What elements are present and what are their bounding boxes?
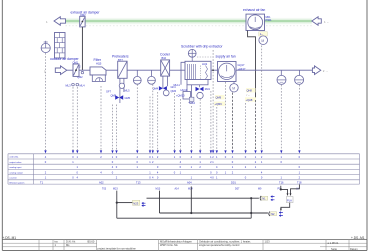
supply duct line: [67, 69, 313, 71]
svg-text:+QH8: +QH8: [246, 98, 253, 102]
scrubber HU2: [185, 61, 211, 79]
svg-text:GF7: GF7: [106, 90, 112, 94]
louvre wall (brick): [55, 33, 66, 59]
svg-text:PLA: PLA: [287, 199, 292, 203]
frame right border: [366, 0, 368, 250]
faint parallel dashed line: [66, 25, 312, 27]
svg-text:analog input: analog input: [10, 166, 22, 169]
svg-text:D.Kl.-Nr.: D.Kl.-Nr.: [66, 239, 76, 243]
wire M23: [116, 191, 118, 219]
svg-text:a 1.08 A1: a 1.08 A1: [328, 241, 340, 245]
wire M13: [159, 191, 161, 213]
svg-text:M: M: [232, 86, 235, 90]
frame left border: [1, 0, 3, 250]
svg-text:1 ←: 1 ←: [324, 20, 330, 24]
title block text: [55, 239, 358, 251]
svg-text:D01: D01: [231, 180, 236, 184]
wire L8 to PLA: [291, 185, 300, 195]
svg-text:+.DS.-M1: +.DS.-M1: [351, 236, 365, 240]
svg-text:supply air fan: supply air fan: [216, 54, 236, 58]
svg-text:N1: N1: [262, 196, 266, 200]
supply outlet arrow: [312, 66, 320, 75]
svg-text:MT-text system: MT-text system: [10, 182, 25, 185]
svg-text:M: M: [261, 39, 264, 43]
below-table wire labels: [102, 187, 299, 190]
controller N1: [260, 196, 261, 201]
damper control wire: [81, 27, 83, 70]
exhaust air duct (green): [66, 18, 312, 25]
exhaust outlet arrow: [54, 17, 66, 26]
svg-text:ML3: ML3: [66, 83, 72, 87]
scrubber water feed pipe: [181, 62, 185, 85]
svg-text:T18: T18: [297, 180, 302, 184]
svg-text:P601: P601: [266, 18, 273, 22]
svg-text:+HK17: +HK17: [238, 67, 247, 71]
svg-text:r ~: r ~: [247, 93, 251, 97]
svg-text:ML5: ML5: [125, 89, 131, 93]
svg-text:T13: T13: [136, 180, 141, 184]
return air inlet arrow: [312, 17, 322, 26]
preheater valve: [115, 95, 123, 99]
svg-text:analog output: analog output: [10, 171, 24, 174]
svg-text:D07: D07: [235, 187, 240, 190]
exhaust fan control wire: [248, 31, 256, 101]
exhaust air fan: [246, 14, 265, 30]
supply fan motor: [230, 84, 238, 92]
svg-text:+.DS.-M1: +.DS.-M1: [3, 236, 17, 240]
svg-text:exhaust air fan: exhaust air fan: [243, 8, 265, 12]
svg-text:A14: A14: [175, 187, 180, 190]
svg-text:order-No.: order-No.: [10, 156, 20, 159]
cooler pump: [163, 90, 169, 96]
svg-text:M01: M01: [266, 15, 272, 19]
svg-text:Scrubber with drip extractor: Scrubber with drip extractor: [181, 45, 223, 49]
svg-text:M14: M14: [188, 187, 193, 190]
scrubber sensor: [188, 49, 196, 57]
motor signal lines (darker): [233, 93, 256, 151]
svg-text:outdoor air damper: outdoor air damper: [50, 57, 80, 61]
preheater pump: [119, 83, 124, 88]
svg-text:Filter: Filter: [94, 58, 102, 62]
wire riser: [250, 198, 252, 218]
svg-text:A02: A02: [99, 180, 104, 184]
I/O table: [8, 154, 360, 184]
wire P1 to PLA: [281, 186, 288, 195]
scrubber pump: [197, 92, 203, 98]
svg-text:ML11: ML11: [174, 83, 181, 87]
svg-text:GM5: GM5: [125, 96, 131, 100]
svg-text:GQ17: GQ17: [238, 63, 245, 67]
svg-text:N23: N23: [133, 201, 139, 205]
node ML4: [76, 83, 79, 86]
svg-text:M13: M13: [156, 187, 161, 190]
svg-text:QM4: QM4: [171, 89, 177, 93]
supply air fan: [218, 62, 237, 82]
wire M23 bottom run: [117, 217, 251, 219]
svg-text:Cooler: Cooler: [160, 52, 171, 56]
cooler pipes: [162, 76, 164, 88]
svg-text:+QM10: +QM10: [176, 94, 185, 98]
I/O table row headers: [10, 156, 25, 185]
title block bottom line: [2, 249, 367, 251]
outdoor air sensor: [41, 43, 50, 52]
duct sensor 1: [136, 70, 138, 76]
svg-text:+QM9: +QM9: [215, 102, 223, 106]
filter sensor box: [92, 75, 105, 82]
controller N2: [269, 212, 270, 217]
filter HQ5: [90, 67, 106, 75]
supply fan labels: [215, 95, 225, 99]
svg-text:N2: N2: [271, 212, 275, 216]
signal line arrowheads: [44, 150, 300, 153]
svg-text:HU2: HU2: [202, 62, 208, 66]
svg-text:MSuR/Infrastruktur Anlagen: MSuR/Infrastruktur Anlagen: [160, 239, 192, 243]
svg-text:QM4: QM4: [153, 87, 159, 91]
scrubber sump: [187, 80, 208, 85]
exhaust air damper QM2: [80, 16, 85, 27]
I/O table entries: [45, 155, 301, 180]
title block dividers: [39, 240, 349, 251]
title block top line: [2, 239, 367, 241]
scrubber feed tank: [186, 85, 188, 92]
duct sensor 2: [151, 70, 153, 76]
svg-text:counter: counter: [10, 177, 18, 180]
controller N23: [133, 200, 140, 205]
scrubber valve: [196, 87, 204, 91]
svg-text:WSP N-Oe. Ms: WSP N-Oe. Ms: [160, 243, 178, 247]
svg-text:Datum: Datum: [350, 247, 358, 251]
svg-text:T16: T16: [279, 180, 284, 184]
svg-text:A04: A04: [187, 180, 192, 184]
svg-text:B5.60: B5.60: [88, 239, 95, 243]
wire M14: [190, 187, 192, 214]
svg-text:HQ5: HQ5: [96, 62, 102, 66]
svg-text:single temperature/humidity co: single temperature/humidity control: [199, 243, 240, 247]
outdoor air intake arrow: [55, 66, 67, 75]
svg-text:QH8: QH8: [247, 89, 253, 93]
cooler B10: [161, 60, 170, 76]
svg-text:M23: M23: [113, 187, 118, 190]
signal lines to I/O table: [46, 46, 300, 151]
supply duct sensor 2: [298, 70, 300, 75]
bus upper: [147, 197, 259, 199]
cooler valve: [159, 86, 167, 90]
svg-text:ML4: ML4: [80, 83, 86, 87]
scrubber pump wire M14: [190, 85, 192, 100]
supply duct sensor 1: [280, 70, 282, 75]
preheater BT7: [118, 61, 127, 78]
title block middle lines: [2, 242, 97, 244]
svg-text:1/23: 1/23: [265, 239, 271, 243]
bus lower: [160, 212, 268, 214]
svg-text:2 →: 2 →: [323, 69, 329, 73]
svg-text:Seite: Seite: [331, 247, 337, 251]
svg-text:T03: T03: [102, 187, 107, 190]
PLA out wire: [281, 203, 290, 210]
node at duct for scrubber sensor line: [212, 69, 214, 71]
exhaust fan motor: [259, 32, 268, 36]
PLA box: [286, 197, 293, 203]
svg-text:Gebäude air conditioning, scru: Gebäude air conditioning, scrubber, 1 he…: [199, 239, 251, 243]
svg-text:B10: B10: [162, 56, 167, 60]
svg-text:output value: output value: [10, 161, 23, 164]
svg-text:ML9: ML9: [205, 87, 211, 91]
svg-text:project template for non-stock: project template for non-stockline: [98, 247, 137, 251]
outdoor air damper QM1: [73, 64, 79, 76]
svg-text:QM9: QM9: [216, 96, 222, 100]
preheater pipes: [119, 78, 121, 103]
